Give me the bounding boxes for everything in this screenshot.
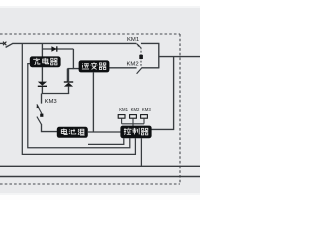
KM1-KM2 linkage block bbox=[139, 55, 143, 59]
dashed enclosure border bottom bbox=[0, 183, 180, 185]
top white band bbox=[0, 0, 200, 6]
diode D3 (discharge path, pointing up) bbox=[64, 81, 73, 83]
wire: inverter input left branch down bbox=[66, 69, 68, 82]
contactor coil KM3 bbox=[141, 115, 148, 119]
svg-text:KM3: KM3 bbox=[45, 99, 58, 105]
KM1-KM2 linkage dashed line bbox=[140, 48, 142, 67]
wire: charger bottom to diode D2 bbox=[41, 67, 43, 82]
wire: diode branch down to inverter input bbox=[73, 49, 79, 69]
wire: battery to controller bbox=[88, 131, 121, 133]
wire: below D2 bbox=[41, 87, 43, 94]
wire: drop to controller right bbox=[152, 57, 174, 130]
wire: down to KM3 contact bbox=[41, 94, 43, 104]
bottom bus line 2 bbox=[0, 176, 200, 178]
bottom bus line 1 bbox=[0, 165, 200, 167]
diode D2 (charge path, pointing down) bbox=[38, 82, 47, 86]
wire: output junction vertical bbox=[158, 43, 160, 67]
wire: bus tap down to charger bbox=[41, 43, 43, 57]
diode D1 (charger to inverter) bbox=[51, 46, 56, 51]
KM3 linkage block bbox=[40, 114, 43, 117]
wire: inverter bottom down to battery bus bbox=[92, 72, 94, 132]
inverter label box 逆变器 bbox=[79, 60, 110, 72]
contactor KM1 main contact blade bbox=[137, 44, 141, 48]
svg-text:KM2: KM2 bbox=[131, 107, 140, 112]
wire: KM2 output bbox=[142, 67, 160, 69]
svg-text:KM2: KM2 bbox=[127, 62, 139, 68]
contactor KM1 blade arrowhead bbox=[137, 44, 139, 47]
bottom white band bbox=[0, 195, 200, 200]
wire: KM1 output bbox=[141, 42, 160, 44]
wire: controller sense A (to battery area) bbox=[88, 138, 124, 144]
wire: bus left tap down (to controller) bbox=[22, 43, 135, 154]
svg-text:KM3: KM3 bbox=[142, 107, 151, 112]
contactor KM3 blade 1 bbox=[37, 104, 42, 113]
wire: KM3 to battery bbox=[42, 124, 58, 131]
contactor KM2 main contact blade bbox=[137, 67, 143, 74]
wire: inverter output to KM2 bbox=[109, 67, 137, 69]
wire: below D3 bbox=[68, 87, 70, 94]
wire: AC output to load (crosses dashed border) bbox=[159, 56, 200, 58]
wire: charger left terminal down (to controller) bbox=[28, 64, 130, 148]
wire: controller drop D to bottom bus bbox=[140, 138, 142, 166]
wire: diode junction horizontal bbox=[42, 93, 69, 95]
wire: horizontal stub at inverter input bbox=[67, 68, 73, 70]
svg-text:KM1: KM1 bbox=[127, 37, 139, 43]
wire: mains bus to KM1 bbox=[13, 42, 137, 44]
svg-text:KM1: KM1 bbox=[119, 107, 128, 112]
wire: coil stubs to controller bbox=[122, 118, 144, 126]
wire: above D3 bbox=[68, 69, 70, 82]
contactor coil KM1 bbox=[118, 115, 125, 119]
contactor coil KM2 bbox=[130, 115, 137, 119]
battery label box 电池组 bbox=[57, 127, 88, 138]
wire: charger diode branch bbox=[42, 48, 73, 50]
contactor KM3 blade 2 bbox=[37, 117, 42, 125]
breaker QF blade bbox=[6, 43, 14, 47]
dashed enclosure border right bbox=[179, 34, 181, 184]
breaker QF cross bbox=[3, 42, 6, 46]
dashed enclosure border top bbox=[0, 33, 180, 35]
wire: mains bus left segment bbox=[0, 42, 4, 44]
charger label box 充电器 bbox=[30, 56, 61, 67]
controller label box 控制器 bbox=[120, 126, 151, 139]
KM3 blade 1 arrowhead bbox=[37, 104, 39, 108]
